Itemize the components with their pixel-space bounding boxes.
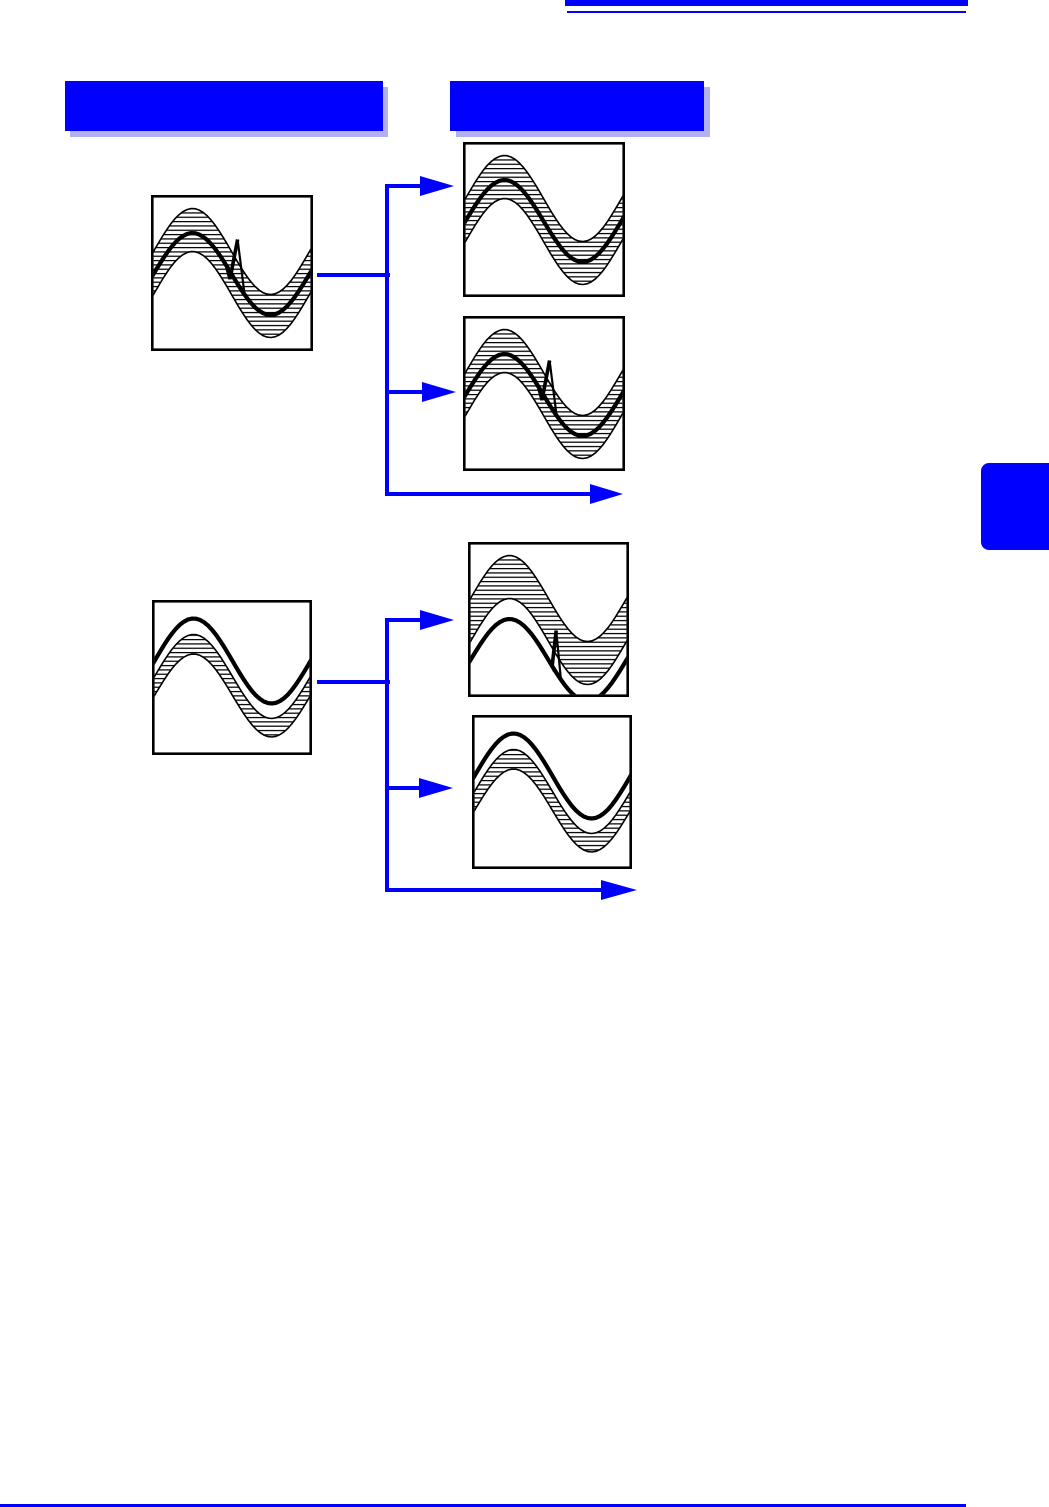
right heading bar shadow [456,87,710,137]
wire: group 1 branch 3 shaft [385,492,591,496]
wire: source 2 connector [317,680,390,684]
left heading bar [65,81,383,131]
arrowhead: group 1 branch 3 [590,484,623,504]
wire: group 1 branch 2 shaft [385,390,422,394]
waveform box D: wave riding above envelope [472,715,632,869]
wire: group 1 vertical trunk [385,184,389,496]
waveform box S1: source wave with glitch inside envelope [151,195,313,351]
waveform box B: wave with glitch inside envelope [463,316,625,471]
waveform box C: wave below envelope with glitch [468,542,629,697]
right heading bar [450,81,704,131]
wire: group 2 branch 3 shaft [385,888,601,892]
wire: group 2 vertical trunk [385,618,389,892]
wire: source 1 connector [317,273,390,277]
arrowhead: group 1 branch 2 [422,382,456,402]
wire: group 2 branch 2 shaft [385,786,420,790]
header rule thin [567,11,966,13]
waveform box A: wave inside envelope (no glitch) [463,142,625,297]
wire: group 1 branch 1 shaft [385,184,421,188]
waveform box S2: source wave riding above envelope [152,600,312,755]
arrowhead: group 2 branch 3 [601,880,637,900]
footer rule [0,1504,966,1507]
wire: group 2 branch 1 shaft [385,618,421,622]
arrowhead: group 2 branch 1 [420,610,454,630]
left heading bar shadow [70,87,388,137]
arrowhead: group 2 branch 2 [419,778,453,798]
arrowhead: group 1 branch 1 [420,176,454,196]
header rule thick [565,0,968,6]
right page-edge chapter tab [981,463,1049,550]
